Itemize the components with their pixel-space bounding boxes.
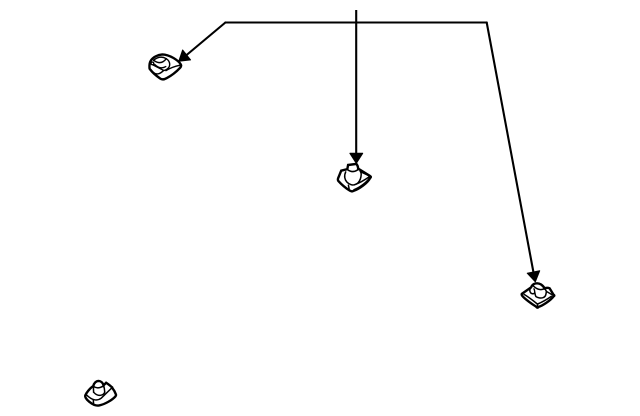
clip A dome right curve bbox=[164, 59, 169, 71]
clip D cylinder inner rim bbox=[94, 386, 104, 388]
clip A outline bbox=[149, 54, 181, 79]
clip D (bottom-left clip) bbox=[85, 381, 116, 406]
clip A cap bottom arc bbox=[154, 59, 167, 63]
clip C rim inner right line bbox=[538, 296, 552, 304]
clip A flange curve from right corner bbox=[166, 65, 180, 70]
clip A cap top arc bbox=[154, 57, 167, 60]
clip C tab loop bbox=[530, 288, 535, 294]
clip D cylinder right side bbox=[103, 386, 106, 392]
clip B fold tick bbox=[347, 185, 350, 188]
clip A front flange curve bbox=[151, 70, 163, 74]
clip B flange inner edge bbox=[354, 178, 370, 190]
clip B diagonal from right corner bbox=[354, 176, 370, 184]
clip B boss cap bottom arc bbox=[347, 170, 358, 172]
clip A (top-left spring nut) bbox=[149, 54, 181, 79]
clip C tab inner line bbox=[533, 289, 536, 293]
clip C bottom corner tick bbox=[536, 304, 538, 307]
leader line to clip A (top-left) bbox=[187, 23, 226, 56]
clip A cap rim arc bbox=[155, 64, 166, 67]
clip D seam sweep bbox=[86, 387, 112, 400]
clip D bottom fold tick bbox=[92, 400, 94, 403]
clip B (middle spring nut) bbox=[338, 164, 371, 192]
clip B outline bbox=[338, 164, 371, 192]
clip C brim wave bbox=[533, 286, 545, 290]
clip A small hole circle bbox=[151, 62, 154, 65]
clip C outline with dome bbox=[522, 283, 555, 307]
clip C dome base bbox=[535, 289, 547, 298]
clip C rim inner left line bbox=[524, 294, 537, 304]
clip C dome to right corner sweep bbox=[546, 291, 553, 295]
clip C (bottom-right flat nut) bbox=[522, 283, 555, 307]
clip D cylinder left side bbox=[92, 386, 94, 392]
arrowhead to clip B (middle) bbox=[350, 153, 363, 163]
arrowhead to clip A bbox=[179, 50, 191, 61]
arrowhead to clip C bbox=[527, 271, 540, 282]
leader trunk vertical line bbox=[355, 10, 357, 154]
leader line to clip C (bottom-right) bbox=[487, 23, 534, 273]
clip D cylinder bottom arc bbox=[94, 392, 105, 395]
clip A slit line bbox=[153, 65, 164, 71]
clip B dome shoulder line bbox=[361, 172, 368, 175]
leader horizontal line bbox=[225, 21, 486, 23]
clip D outline bbox=[85, 381, 116, 406]
clip B dome bbox=[345, 171, 361, 185]
